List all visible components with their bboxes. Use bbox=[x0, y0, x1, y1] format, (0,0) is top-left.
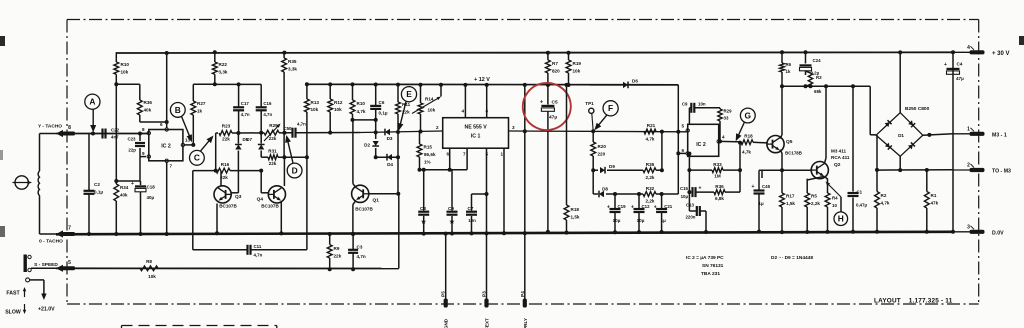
diode D4 bbox=[387, 154, 393, 167]
switch S-SPEED jack bbox=[24, 255, 57, 273]
svg-text:R29: R29 bbox=[724, 109, 733, 114]
svg-text:3: 3 bbox=[967, 224, 970, 230]
svg-text:820: 820 bbox=[552, 69, 560, 74]
svg-text:0,1µ: 0,1µ bbox=[94, 190, 103, 195]
svg-text:4,7k: 4,7k bbox=[742, 150, 751, 155]
svg-text:1µ: 1µ bbox=[758, 201, 764, 206]
svg-text:D: D bbox=[292, 165, 298, 175]
svg-text:Y - TACHO: Y - TACHO bbox=[38, 124, 62, 130]
svg-text:R2: R2 bbox=[881, 193, 887, 198]
transistor Q3 BC107B bbox=[214, 186, 242, 209]
svg-text:1: 1 bbox=[967, 126, 970, 132]
svg-text:R18: R18 bbox=[744, 134, 753, 139]
wire Q3 emitter bbox=[215, 204, 219, 236]
capacitor C9b 10n feedback bbox=[682, 102, 720, 125]
resistor R11 22k bbox=[396, 83, 411, 132]
svg-text:F: F bbox=[608, 103, 613, 113]
svg-text:C3: C3 bbox=[357, 245, 363, 250]
svg-text:10k: 10k bbox=[121, 70, 129, 75]
resistor R36 40k bbox=[116, 84, 168, 124]
svg-text:33: 33 bbox=[724, 116, 729, 121]
diode D8 bbox=[599, 187, 608, 198]
wire +12V rail bbox=[308, 77, 678, 85]
svg-text:4: 4 bbox=[722, 135, 725, 140]
wire R21 right down bbox=[661, 132, 663, 171]
svg-text:GND: GND bbox=[444, 318, 449, 328]
transistor Q1 BC107B bbox=[352, 185, 380, 211]
svg-text:+: + bbox=[654, 205, 657, 211]
svg-text:1M: 1M bbox=[714, 174, 721, 179]
connector pin 7 0-TACHO bbox=[39, 226, 75, 245]
svg-text:6,8k: 6,8k bbox=[715, 196, 724, 201]
svg-text:Q2: Q2 bbox=[834, 162, 841, 168]
wire IC1 pin4 bbox=[463, 83, 467, 118]
svg-text:R32: R32 bbox=[646, 186, 655, 191]
resistor R17 1,5k bbox=[780, 170, 796, 234]
svg-text:C9: C9 bbox=[448, 206, 454, 211]
svg-text:1µ: 1µ bbox=[661, 218, 667, 223]
svg-text:R27: R27 bbox=[197, 101, 206, 106]
wire IC2 pin6 to top rail bbox=[165, 51, 169, 128]
svg-text:1: 1 bbox=[500, 152, 503, 157]
svg-text:10µ: 10µ bbox=[613, 218, 621, 223]
svg-text:C: C bbox=[194, 153, 200, 163]
label IC2 type bbox=[686, 255, 724, 277]
svg-text:R23: R23 bbox=[222, 124, 231, 129]
svg-text:C19: C19 bbox=[618, 204, 627, 209]
capacitor C11 4,7n bbox=[248, 244, 263, 258]
svg-text:4: 4 bbox=[967, 45, 970, 51]
wire C11 bus bbox=[193, 171, 307, 250]
wire 0V rail bbox=[56, 232, 953, 235]
resistor R34 40k bbox=[114, 184, 129, 236]
svg-text:+: + bbox=[752, 184, 755, 190]
svg-text:+21.0V: +21.0V bbox=[38, 307, 55, 313]
wire P3 FEXT bbox=[486, 233, 488, 299]
wire IC2 pin1 out bbox=[720, 140, 741, 143]
pointer B bbox=[170, 103, 192, 143]
wire Q2 base row bbox=[759, 168, 811, 178]
connector pin 3 D.0V bbox=[953, 224, 1004, 236]
resistor R33 1M bbox=[687, 141, 742, 179]
wire cap top row bbox=[215, 82, 261, 86]
dashed parts-box top edge bbox=[122, 326, 277, 328]
svg-text:C4: C4 bbox=[957, 62, 963, 67]
svg-text:D1: D1 bbox=[898, 133, 904, 138]
svg-text:86,6k: 86,6k bbox=[424, 152, 436, 157]
svg-text:BC178B: BC178B bbox=[785, 151, 802, 156]
wire R31 row bbox=[261, 155, 309, 159]
svg-text:40k: 40k bbox=[144, 108, 152, 113]
wire bottoms row y120 bbox=[351, 118, 378, 122]
svg-text:C9: C9 bbox=[682, 102, 688, 107]
svg-text:1,5k: 1,5k bbox=[786, 201, 795, 206]
pointer C bbox=[190, 136, 214, 166]
pointer H bbox=[834, 197, 848, 226]
pointer E bbox=[398, 87, 417, 131]
svg-text:D9: D9 bbox=[609, 164, 615, 169]
wire Q4 base bbox=[261, 171, 268, 193]
svg-text:FEXT: FEXT bbox=[485, 318, 490, 328]
svg-text:C50: C50 bbox=[283, 126, 292, 131]
wire P5 GND bbox=[444, 232, 448, 299]
svg-text:P3: P3 bbox=[482, 291, 487, 297]
svg-text:R12: R12 bbox=[334, 100, 343, 105]
svg-text:R35: R35 bbox=[288, 59, 297, 64]
svg-text:C24: C24 bbox=[813, 58, 822, 63]
svg-text:22k: 22k bbox=[269, 136, 277, 141]
svg-text:47k: 47k bbox=[931, 201, 939, 206]
svg-text:R16: R16 bbox=[221, 162, 230, 167]
wire Q5 emitter to R6 bbox=[780, 86, 782, 138]
resistor R21 4,7k bbox=[644, 123, 664, 142]
svg-text:4,7n: 4,7n bbox=[357, 254, 366, 259]
node A junction bbox=[91, 132, 95, 136]
resistor R20 220 bbox=[591, 131, 607, 194]
svg-text:R22: R22 bbox=[219, 62, 228, 67]
resistor R10 10k bbox=[114, 52, 129, 184]
pointer G bbox=[736, 108, 755, 141]
resistor R27 1k bbox=[191, 82, 217, 147]
wire mid rail right (IC1 pin3 to IC2 pin5) bbox=[509, 130, 688, 133]
resistor R23 22k bbox=[219, 124, 232, 142]
svg-text:C45: C45 bbox=[762, 184, 771, 189]
op-amp IC2 (left half) bbox=[142, 122, 191, 169]
wire Q3 collector bbox=[220, 172, 222, 186]
svg-text:M3 411: M3 411 bbox=[831, 149, 847, 154]
wire Q5 collector down bbox=[780, 150, 782, 171]
wire top supply rail bbox=[116, 51, 953, 54]
svg-text:R15: R15 bbox=[424, 145, 433, 150]
capacitor C3 4,7n bbox=[348, 232, 366, 271]
svg-text:4,7n: 4,7n bbox=[263, 112, 272, 117]
svg-text:22p: 22p bbox=[128, 148, 136, 153]
svg-text:B: B bbox=[175, 105, 181, 115]
resistor R10 4,7k bbox=[350, 82, 366, 120]
label LAYOUT number bbox=[874, 298, 953, 305]
pointer A bbox=[85, 94, 100, 132]
svg-text:C15: C15 bbox=[680, 186, 689, 191]
node TP1 junction bbox=[591, 129, 595, 133]
capacitor C7 10n bbox=[466, 194, 477, 235]
resistor R25 22k bbox=[264, 123, 281, 141]
svg-text:Q4: Q4 bbox=[257, 197, 264, 203]
svg-text:8: 8 bbox=[142, 127, 145, 132]
svg-text:RCA 411: RCA 411 bbox=[831, 155, 850, 160]
resistor R6 1k bbox=[780, 50, 792, 86]
capacitor C22 bbox=[103, 128, 120, 140]
svg-text:C8: C8 bbox=[420, 206, 426, 211]
wire aux vertical x525 bbox=[523, 83, 527, 235]
svg-text:IC 2: IC 2 bbox=[161, 144, 171, 150]
svg-text:R18: R18 bbox=[571, 207, 580, 212]
resistor R18 4,7k bbox=[741, 134, 767, 155]
svg-text:C6: C6 bbox=[379, 100, 385, 105]
connector pin P5 GND bbox=[441, 291, 449, 328]
red marking circle bbox=[520, 80, 574, 133]
label SLOW bbox=[5, 304, 26, 316]
svg-text:D6: D6 bbox=[632, 79, 638, 84]
svg-text:2,2k: 2,2k bbox=[646, 175, 655, 180]
resistor R22 3,3k bbox=[212, 50, 227, 84]
wire bridge top to rail bbox=[898, 50, 902, 112]
diode D5 bbox=[235, 133, 249, 150]
svg-text:M3 - 1: M3 - 1 bbox=[992, 132, 1007, 138]
diode D6 bbox=[590, 79, 678, 89]
connector pin 5 S-SPEED bbox=[34, 260, 75, 272]
svg-text:IC 2: IC 2 bbox=[696, 142, 706, 148]
svg-text:8: 8 bbox=[68, 125, 71, 131]
svg-text:10k: 10k bbox=[311, 107, 319, 112]
wire mid rail left (IC1 pin2) bbox=[360, 131, 443, 133]
capacitor C15 10u bbox=[680, 186, 714, 200]
svg-text:4,7k: 4,7k bbox=[357, 109, 366, 114]
resistor R12 10k bbox=[328, 82, 343, 134]
svg-text:SN 76131: SN 76131 bbox=[702, 263, 724, 269]
svg-text:1,5k: 1,5k bbox=[571, 215, 580, 220]
trimmer R4 10 bbox=[825, 179, 841, 234]
svg-text:Q3: Q3 bbox=[235, 194, 242, 200]
svg-text:5: 5 bbox=[68, 260, 71, 266]
node R25/D7 bbox=[259, 131, 263, 135]
svg-text:LAYOUT 1.177.325 - 11: LAYOUT 1.177.325 - 11 bbox=[874, 298, 953, 305]
svg-text:10k: 10k bbox=[428, 108, 436, 113]
pointer F bbox=[594, 101, 618, 131]
svg-text:C17: C17 bbox=[241, 101, 250, 106]
svg-text:★: ★ bbox=[420, 219, 427, 226]
wire Y-TACHO input rail bbox=[56, 133, 149, 135]
svg-text:0,47µ: 0,47µ bbox=[856, 203, 868, 208]
svg-text:D2 ··· D9 = 1N4448: D2 ··· D9 = 1N4448 bbox=[771, 255, 813, 261]
resistor R18b 1,5k bbox=[564, 83, 580, 235]
svg-text:C18: C18 bbox=[147, 185, 156, 190]
svg-text:R35: R35 bbox=[646, 162, 655, 167]
svg-text:R36: R36 bbox=[715, 184, 724, 189]
resistor R5 2,2k bbox=[805, 179, 821, 234]
svg-text:Q1: Q1 bbox=[373, 198, 380, 204]
resistor R13 10k bbox=[305, 82, 320, 250]
svg-text:C11: C11 bbox=[254, 244, 262, 249]
resistor R15 86,6k 1% bbox=[417, 131, 436, 169]
svg-text:R31: R31 bbox=[268, 149, 277, 154]
svg-text:R1: R1 bbox=[931, 193, 937, 198]
svg-text:1k: 1k bbox=[786, 69, 791, 74]
edge artifact marks bbox=[0, 36, 1024, 237]
capacitor C50 4,7n bbox=[283, 122, 361, 138]
svg-text:R21: R21 bbox=[647, 123, 656, 128]
wire IC1 pin8 bbox=[485, 83, 489, 118]
svg-text:D3: D3 bbox=[387, 136, 393, 141]
wire D4 row bbox=[376, 132, 398, 157]
connector pin 2 TO-M3 bbox=[953, 163, 1011, 175]
capacitor C4 47u bbox=[944, 62, 964, 82]
resistor R7 820 bbox=[546, 51, 561, 87]
resistor R31 22k bbox=[268, 149, 278, 167]
test point TP1 bbox=[585, 101, 594, 131]
capacitor C5 47u bbox=[540, 85, 558, 234]
svg-text:R4: R4 bbox=[832, 196, 838, 201]
capacitor C2 0,1u bbox=[84, 134, 104, 237]
svg-text:10µ: 10µ bbox=[637, 218, 645, 223]
svg-text:4,7k: 4,7k bbox=[646, 137, 655, 142]
wire bridge right to M3-1 bbox=[923, 133, 953, 137]
svg-text:R5: R5 bbox=[811, 194, 817, 199]
capacitor C12 10u bbox=[631, 192, 650, 234]
wire Q2 collector bbox=[824, 84, 828, 164]
svg-text:22k: 22k bbox=[269, 161, 277, 166]
wire D8 row bbox=[593, 193, 678, 195]
wire bridge bottom to TO-M3 bbox=[898, 156, 902, 172]
svg-text:★: ★ bbox=[448, 219, 455, 226]
svg-text:22k: 22k bbox=[334, 254, 342, 259]
svg-text:220n: 220n bbox=[685, 215, 695, 220]
svg-text:R20: R20 bbox=[598, 144, 607, 149]
svg-text:4,7n: 4,7n bbox=[297, 122, 306, 127]
diode D2 bbox=[364, 120, 379, 159]
wire IC1 pins 6-7 tie bbox=[418, 148, 468, 172]
resistor R32 2,2k bbox=[643, 186, 656, 204]
capacitor C45 1u bbox=[752, 170, 771, 233]
svg-text:10: 10 bbox=[832, 203, 837, 208]
svg-text:0 - TACHO: 0 - TACHO bbox=[39, 239, 63, 245]
wire R16 row bbox=[193, 169, 263, 173]
wire Q1 emitter bbox=[351, 200, 356, 236]
svg-text:C23: C23 bbox=[127, 137, 136, 142]
svg-text:C22: C22 bbox=[111, 128, 120, 133]
resistor R9 22k bbox=[327, 232, 341, 271]
svg-text:220: 220 bbox=[598, 152, 606, 157]
diode D3 bbox=[385, 129, 400, 141]
capacitor C18 40u bbox=[131, 181, 155, 236]
svg-text:D4: D4 bbox=[387, 162, 393, 167]
svg-text:22k: 22k bbox=[222, 137, 230, 142]
svg-text:TBA 231: TBA 231 bbox=[701, 271, 720, 277]
capacitor C8 bbox=[418, 168, 429, 236]
svg-text:C1: C1 bbox=[857, 190, 863, 195]
svg-text:NE 555 V: NE 555 V bbox=[464, 125, 487, 131]
svg-text:68k: 68k bbox=[814, 89, 822, 94]
wire R23-R25 row bbox=[216, 133, 292, 171]
svg-text:3,3k: 3,3k bbox=[219, 70, 228, 75]
svg-text:0,1µ: 0,1µ bbox=[379, 111, 388, 116]
svg-text:A: A bbox=[89, 97, 95, 107]
connector pin 4 +30V bbox=[953, 45, 1010, 57]
svg-text:40µ: 40µ bbox=[147, 195, 155, 200]
capacitor C1 0,47u bbox=[848, 86, 868, 233]
svg-text:R3: R3 bbox=[816, 75, 822, 80]
connector pin 8 Y-TACHO bbox=[38, 124, 75, 138]
svg-text:4,7k: 4,7k bbox=[881, 201, 890, 206]
svg-text:P5: P5 bbox=[441, 291, 446, 297]
svg-text:7: 7 bbox=[68, 226, 71, 232]
wire D9 row bbox=[591, 168, 664, 172]
svg-text:R34: R34 bbox=[120, 185, 129, 190]
svg-text:P4: P4 bbox=[520, 291, 525, 297]
svg-text:R36: R36 bbox=[144, 100, 153, 105]
svg-text:E: E bbox=[406, 89, 412, 99]
capacitor C16 4,7n bbox=[256, 84, 273, 132]
wire Q1 collector bbox=[353, 120, 356, 188]
wire IC1 pin1 bbox=[502, 148, 506, 235]
svg-text:4n7: 4n7 bbox=[111, 135, 119, 140]
svg-text:BC107B: BC107B bbox=[261, 204, 279, 209]
svg-text:C5: C5 bbox=[552, 100, 558, 106]
svg-text:C12: C12 bbox=[642, 204, 651, 209]
transistor Q4 BC107B bbox=[257, 186, 286, 209]
svg-text:+: + bbox=[631, 205, 634, 211]
svg-text:3: 3 bbox=[512, 125, 515, 130]
svg-text:R14: R14 bbox=[425, 97, 434, 102]
svg-text:G: G bbox=[745, 110, 752, 120]
svg-text:7: 7 bbox=[463, 152, 466, 157]
svg-text:R7: R7 bbox=[552, 61, 558, 66]
svg-text:D7: D7 bbox=[246, 137, 252, 142]
svg-text:R33: R33 bbox=[713, 162, 722, 167]
capacitor C21 1u bbox=[654, 192, 673, 234]
resistor R36b 6,8k bbox=[714, 170, 740, 201]
svg-text:R10: R10 bbox=[357, 101, 366, 106]
svg-text:C16: C16 bbox=[263, 101, 272, 106]
svg-text:10k: 10k bbox=[573, 69, 581, 74]
resistor R3 68k bbox=[806, 71, 823, 94]
wire P4 PRLY bbox=[524, 233, 526, 299]
svg-text:BC107B: BC107B bbox=[355, 207, 373, 212]
wire Q4 emitter bbox=[279, 201, 283, 235]
svg-text:2: 2 bbox=[967, 163, 970, 169]
svg-text:2,2k: 2,2k bbox=[646, 199, 655, 204]
wire Q1 base bbox=[369, 155, 400, 196]
svg-text:4: 4 bbox=[461, 109, 464, 114]
border frame dash-dot bbox=[67, 20, 979, 305]
svg-text:B250 C800: B250 C800 bbox=[905, 106, 930, 112]
diode D7 bbox=[246, 133, 264, 157]
svg-text:S - SPEED: S - SPEED bbox=[34, 262, 58, 268]
resistor R8 10k bbox=[140, 259, 158, 279]
svg-text:+: + bbox=[607, 205, 610, 211]
wire S-SPEED rail bbox=[56, 194, 399, 269]
svg-text:47µ: 47µ bbox=[956, 76, 964, 81]
resistor R19 10k bbox=[566, 51, 581, 87]
op-amp IC2 (right half) bbox=[681, 124, 725, 157]
timer IC1 NE555 bbox=[436, 109, 515, 157]
node R23/D5 bbox=[236, 131, 240, 135]
rectifier D1 B250C800 bbox=[876, 106, 930, 156]
svg-text:R19: R19 bbox=[573, 61, 582, 66]
svg-text:IC 2 = µA 739 PC: IC 2 = µA 739 PC bbox=[686, 255, 724, 261]
wire C15 row bbox=[687, 168, 742, 192]
svg-text:R10: R10 bbox=[121, 62, 130, 67]
svg-text:C13: C13 bbox=[686, 203, 695, 208]
diode D9 bbox=[600, 164, 615, 174]
svg-text:SLOW: SLOW bbox=[5, 310, 21, 316]
svg-text:+: + bbox=[944, 62, 947, 68]
svg-text:BC107B: BC107B bbox=[219, 204, 237, 209]
inductor tacho coil bbox=[38, 171, 39, 196]
svg-text:+: + bbox=[699, 186, 702, 192]
svg-text:R9: R9 bbox=[334, 246, 340, 251]
node +21.0V feed bbox=[26, 278, 56, 313]
capacitor C13 220n bbox=[685, 190, 708, 234]
svg-text:40k: 40k bbox=[120, 193, 128, 198]
wire tacho loop bbox=[40, 134, 57, 235]
svg-text:2,2k: 2,2k bbox=[811, 201, 820, 206]
svg-text:TP1: TP1 bbox=[585, 101, 594, 106]
svg-text:10k: 10k bbox=[334, 107, 342, 112]
svg-text:7: 7 bbox=[170, 164, 173, 169]
capacitor C6 0,1u bbox=[370, 83, 388, 120]
svg-text:C2: C2 bbox=[94, 182, 100, 187]
svg-text:R6: R6 bbox=[786, 62, 792, 67]
